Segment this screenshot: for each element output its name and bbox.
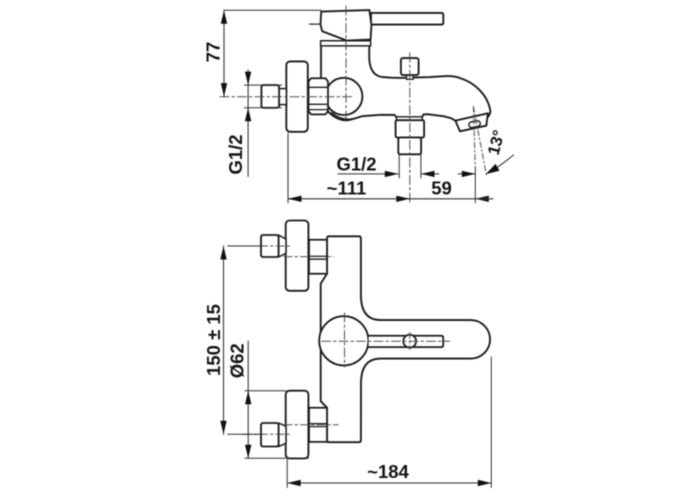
bottom hex nut bbox=[309, 408, 327, 442]
diverter knob stem bbox=[406, 75, 413, 80]
wall flange (escutcheon) bbox=[286, 61, 308, 131]
svg-text:G1/2: G1/2 bbox=[225, 134, 246, 174]
svg-text:G1/2: G1/2 bbox=[336, 154, 376, 175]
collar between stub and flange bbox=[279, 89, 286, 105]
top wall stub G1/2 bbox=[261, 235, 279, 257]
svg-text:59: 59 bbox=[431, 178, 452, 199]
extension line: ~184 left (wall plane) bbox=[286, 460, 288, 488]
centerline: handle axis (horizontal) bbox=[322, 340, 450, 342]
centerline: body axis (vertical) bbox=[344, 313, 346, 367]
bottom wall flange bbox=[286, 391, 309, 459]
svg-text:13°: 13° bbox=[485, 128, 509, 157]
svg-text:~184: ~184 bbox=[367, 461, 409, 482]
cartridge ball bbox=[325, 78, 362, 115]
extension line: ~111 left end (wall plane) bbox=[287, 134, 289, 203]
bottom wall stub G1/2 bbox=[261, 423, 279, 447]
centerline: bottom inlet axis bbox=[284, 424, 338, 426]
top eccentric taper bbox=[279, 235, 286, 257]
diverter knob bbox=[401, 58, 419, 75]
ribbed mounting nut bbox=[309, 78, 329, 114]
bottom eccentric taper bbox=[279, 423, 286, 447]
13 degree slanted axis (dash-dot) bbox=[473, 107, 486, 177]
dimension G1/2 (left) line with outside arrows bbox=[247, 70, 249, 177]
outlet connection collar under body bbox=[396, 117, 422, 120]
extension lines: wall stub diameter bbox=[245, 84, 282, 86]
dimension ~184 line bbox=[287, 482, 491, 484]
outlet nut G1/2 bbox=[396, 120, 425, 137]
dimension diameter 62 line bbox=[247, 341, 249, 458]
centerline: screw axis (short vertical) bbox=[409, 333, 411, 350]
extension line: ~184 right (handle end) bbox=[490, 357, 492, 488]
extension lines: 150 +/- 15 bbox=[228, 245, 262, 247]
centerline: outlet axis (vertical) bbox=[409, 53, 411, 203]
cap joint ring bbox=[321, 41, 371, 46]
centerline: bottom wall stub axis bbox=[243, 433, 292, 435]
dimension 150 +/- 15 line bbox=[223, 246, 225, 434]
centerline: wall connection axis (horizontal) bbox=[220, 96, 352, 98]
mixer body (front view) bbox=[321, 236, 490, 442]
faucet body with spout (side view) bbox=[321, 46, 490, 121]
centerline: mixer axis (vertical) bbox=[345, 6, 347, 119]
centerline: top inlet axis bbox=[284, 256, 334, 258]
dimension line ~111 / 59 bbox=[288, 198, 475, 200]
spout axis reference (vertical dash-dot + solid extension) bbox=[473, 107, 475, 169]
svg-text:77: 77 bbox=[203, 42, 224, 63]
top wall flange bbox=[286, 221, 309, 291]
handle screw bbox=[403, 335, 416, 348]
cartridge cap / handle base bbox=[321, 10, 372, 40]
extension lines: diameter 62 bbox=[245, 390, 286, 392]
outlet thread pipe bbox=[398, 138, 421, 155]
13 degree arc with arrow bbox=[496, 155, 514, 169]
aerator slot bbox=[468, 120, 480, 128]
svg-text:~111: ~111 bbox=[327, 178, 367, 199]
lever handle (plan of bar) bbox=[369, 336, 444, 347]
aerator block at spout end bbox=[455, 113, 488, 131]
handle pivot tick bbox=[310, 23, 322, 25]
dimension G1/2 (bottom) leader and arrows bbox=[338, 173, 398, 175]
cartridge ball (front) bbox=[319, 316, 368, 365]
centerline: top wall stub axis bbox=[243, 245, 292, 247]
lever handle bar bbox=[371, 13, 443, 25]
top hex nut bbox=[309, 240, 327, 274]
wall thread stub G1/2 bbox=[261, 85, 279, 108]
ball bottom lip bbox=[332, 113, 354, 119]
extension line: cap top for dim 77 bbox=[224, 9, 321, 11]
extension lines: outlet thread sides bbox=[398, 155, 400, 178]
svg-text:150 ± 15: 150 ± 15 bbox=[203, 304, 224, 376]
svg-text:Ø62: Ø62 bbox=[227, 343, 248, 378]
dimension 77 line bbox=[223, 10, 225, 96]
